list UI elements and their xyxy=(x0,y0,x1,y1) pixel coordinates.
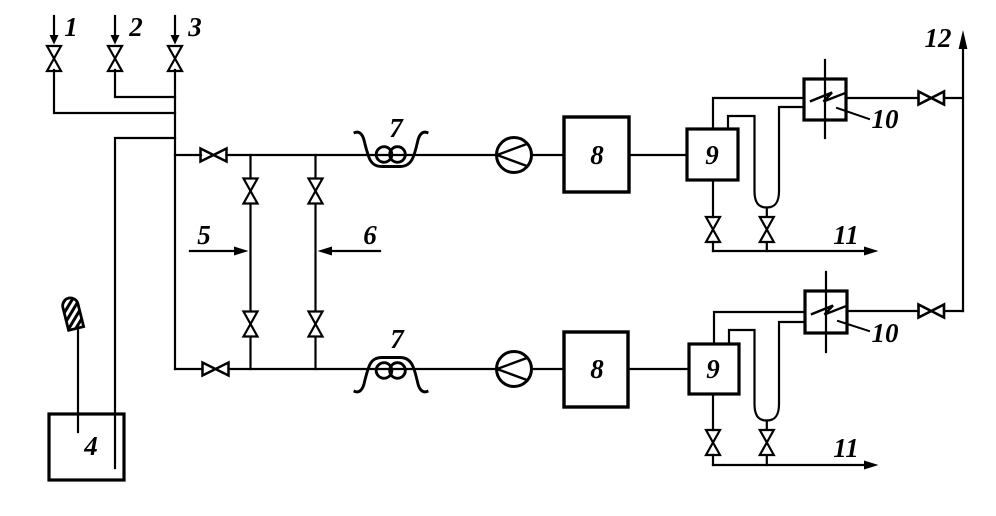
svg-text:9: 9 xyxy=(706,354,720,384)
svg-text:1: 1 xyxy=(64,12,78,42)
svg-text:11: 11 xyxy=(833,433,859,463)
wire U stem to valve row2 xyxy=(766,455,768,465)
valve A lower xyxy=(244,312,258,337)
wire box9 top to heater row2 xyxy=(714,312,805,344)
U-tube row1 xyxy=(728,107,804,208)
inlet arrow 3 xyxy=(171,16,180,45)
svg-text:4: 4 xyxy=(83,431,98,461)
wire U-tube stem row2 xyxy=(766,421,768,431)
wire inlet1 to header xyxy=(54,70,175,113)
svg-text:7: 7 xyxy=(389,113,404,143)
svg-text:7: 7 xyxy=(390,324,405,354)
wire box8 to box9 row1 xyxy=(629,154,687,156)
wire row1 main line xyxy=(175,154,497,156)
valve under 9 row2 xyxy=(706,430,720,455)
U-tube row2 xyxy=(729,322,805,421)
box 9 row2 xyxy=(689,344,739,394)
box 8 row1 xyxy=(564,117,629,192)
valve B upper xyxy=(309,179,323,204)
valve row2 feed xyxy=(203,363,229,376)
box 9 row1 xyxy=(687,129,738,180)
hatched cap of dip tube xyxy=(61,296,84,330)
valve V1 xyxy=(47,46,61,71)
wire row2 main line xyxy=(175,368,497,370)
valve out row1 xyxy=(919,92,945,105)
valve V2 xyxy=(108,46,122,71)
wire heater out row2 xyxy=(847,310,963,312)
valve out row2 xyxy=(919,305,945,318)
svg-text:10: 10 xyxy=(872,104,900,134)
wire branch column A xyxy=(249,155,251,369)
heater 10 row2 xyxy=(805,291,847,333)
wire pump to box8 row2 xyxy=(532,368,565,370)
valve row1 feed xyxy=(201,149,227,162)
valve V3 xyxy=(168,46,182,71)
wire U-tube stem row1 xyxy=(766,208,768,218)
wire box9 top to heater row1 xyxy=(713,98,804,129)
svg-text:6: 6 xyxy=(363,220,377,250)
inlet arrow 5 xyxy=(190,247,249,256)
wire main vertical xyxy=(174,70,176,369)
wire inlet2 to header xyxy=(115,70,175,97)
wire branch to vessel 4 xyxy=(115,138,175,468)
dip tube of vessel 4 xyxy=(77,324,79,432)
wire box8 to box9 row2 xyxy=(628,368,689,370)
riser line 12 xyxy=(959,30,968,311)
pump row2 xyxy=(497,352,532,387)
inlet arrow 1 xyxy=(50,16,59,45)
valve under 9 row1 xyxy=(706,217,720,242)
wire branch column B xyxy=(314,155,316,369)
svg-text:8: 8 xyxy=(590,140,604,170)
coil 7 row2 xyxy=(355,358,427,392)
svg-text:9: 9 xyxy=(705,140,719,170)
coil 7 row1 xyxy=(355,132,427,166)
heater 10 row1 vertical line xyxy=(824,60,826,138)
box 8 row2 xyxy=(564,332,628,407)
heater 10 row1 flash xyxy=(811,93,844,102)
svg-text:12: 12 xyxy=(925,23,952,53)
svg-text:2: 2 xyxy=(128,12,143,42)
pump row1 xyxy=(497,138,532,173)
inlet arrow 2 xyxy=(111,16,120,45)
svg-text:3: 3 xyxy=(187,12,202,42)
wire heater out row1 xyxy=(846,97,963,99)
wire 9 to valve row2 xyxy=(712,394,714,465)
svg-text:8: 8 xyxy=(590,354,604,384)
inlet arrow 6 xyxy=(318,247,381,256)
valve A upper xyxy=(244,179,258,204)
leader to label 10 row1 xyxy=(837,108,869,119)
svg-text:11: 11 xyxy=(833,220,859,250)
svg-text:10: 10 xyxy=(872,318,900,348)
wire U stem to valve row1 xyxy=(766,242,768,251)
vessel 4 xyxy=(49,414,124,480)
heater 10 row2 vertical line xyxy=(825,272,827,352)
valve under U row1 xyxy=(760,217,774,242)
drain line 11 row1 xyxy=(713,247,879,256)
leader to label 10 row2 xyxy=(838,321,869,331)
valve B lower xyxy=(309,312,323,337)
heater 10 row2 flash xyxy=(812,306,845,315)
drain line 11 row2 xyxy=(713,461,879,470)
wire pump to box8 row1 xyxy=(532,154,565,156)
wire 9 to valve row1 xyxy=(712,180,714,251)
valve under U row2 xyxy=(760,430,774,455)
heater 10 row1 xyxy=(804,79,846,120)
svg-text:5: 5 xyxy=(197,220,211,250)
